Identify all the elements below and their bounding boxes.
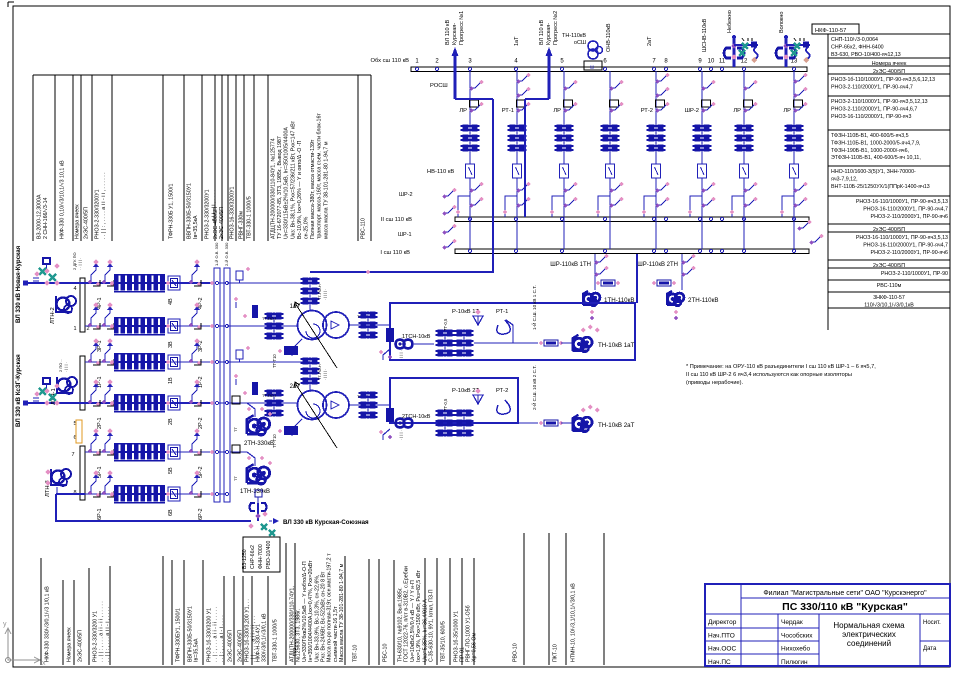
svg-text:РНОЗ-1б-330/3200 У1: РНОЗ-1б-330/3200 У1 xyxy=(207,608,213,662)
svg-text:5Р-2: 5Р-2 xyxy=(198,466,204,478)
svg-text:ШСНВ-110кВ: ШСНВ-110кВ xyxy=(702,18,708,52)
C-bracket coil xyxy=(724,48,731,58)
svg-text:АТДЦТН-200000/330/110-84У1, №1: АТДЦТН-200000/330/110-84У1, №125774 xyxy=(271,138,277,239)
lower-voltage equipment spec table (bottom-left) xyxy=(40,558,42,665)
svg-text:сн-25,0%: сн-25,0% xyxy=(304,216,310,239)
svg-text:ТН-10кВ 1аТ: ТН-10кВ 1аТ xyxy=(598,342,635,349)
1АТ LV line to loop1 xyxy=(349,324,390,326)
spec box ВЗ-1250 xyxy=(243,537,280,572)
svg-text:масса масла ТУ 38-101-281-80 1: масса масла ТУ 38-101-281-80 1-94,7 м xyxy=(323,141,329,239)
svg-text:. . | : , . . . а і - і . . .: . . | : , . . . а і - і . . . . xyxy=(219,615,225,662)
Союзная connection gear xyxy=(257,503,259,521)
svg-text:. | | | . . . : , . .: . | | | . . . : , . . xyxy=(398,337,403,360)
svg-text:Масса по-ро полная-319т, осн.м: Масса по-ро полная-319т, осн.масти-197,2… xyxy=(327,553,333,662)
svg-text:ТВТ-35/10, 600/5: ТВТ-35/10, 600/5 xyxy=(441,621,447,662)
svg-text:ТВТ-330-1 1000/5: ТВТ-330-1 1000/5 xyxy=(247,196,253,239)
svg-text:2Р-1: 2Р-1 xyxy=(97,417,103,429)
svg-text:2-Й О.В. 330: 2-Й О.В. 330 xyxy=(224,242,229,266)
svg-text:1-Й С.Ш. 10 кВ 1 С.Т.: 1-Й С.Ш. 10 кВ 1 С.Т. xyxy=(530,285,537,330)
svg-text:y: y xyxy=(3,621,7,628)
aux transformer feeder at x=734 xyxy=(733,37,736,67)
svg-text:С-35-630-10, 9У1, Iоткл, ПЗ-П: С-35-630-10, 9У1, Iоткл, ПЗ-П xyxy=(429,589,435,662)
CT stack bay 517 xyxy=(510,124,516,131)
svg-text:3Р-1: 3Р-1 xyxy=(97,340,103,352)
line VT ЛТН-2 xyxy=(57,298,70,311)
svg-text:6Р-2: 6Р-2 xyxy=(198,508,204,520)
breaker bay 610 xyxy=(606,164,615,178)
svg-text:Номера ячеек: Номера ячеек xyxy=(75,204,81,239)
svg-text:4В: 4В xyxy=(168,298,174,305)
330kV row 6 at y=494 xyxy=(85,493,214,495)
svg-text:РНОЗ-2-110/2000У1, ПР-90-яч4,6: РНОЗ-2-110/2000У1, ПР-90-яч4,6,7 xyxy=(831,106,917,112)
svg-text:ТФРН-330Б У1, 1500/1: ТФРН-330Б У1, 1500/1 xyxy=(169,183,175,239)
arrester cluster above row 403 xyxy=(43,378,50,384)
svg-text:ВЗ-630, РВО-10/400-яч12,13: ВЗ-630, РВО-10/400-яч12,13 xyxy=(831,52,901,58)
tiny marks xyxy=(742,38,752,41)
svg-text:II сш 110 кВ: II сш 110 кВ xyxy=(381,217,412,223)
yellow marker rect xyxy=(76,420,82,443)
1АТ regulation arrow xyxy=(295,303,337,368)
svg-text:11: 11 xyxy=(719,59,726,65)
autotransformer 1АТ xyxy=(298,311,327,340)
svg-text:яч3-7,9,12,: яч3-7,9,12, xyxy=(831,176,858,182)
ТН-330кВ blob 2ТН xyxy=(230,403,255,417)
svg-text:№125630, 3Т3, 1986г.: №125630, 3Т3, 1986г. xyxy=(296,609,302,662)
bay 13 extra hooks right xyxy=(798,223,808,228)
TN of bypass bus - ТН-110кВ оСШ xyxy=(588,41,598,51)
svg-text:5Р-1: 5Р-1 xyxy=(97,466,103,478)
330kV row 4 at y=283 xyxy=(25,282,214,284)
ТН-10кВ 2аТ blob xyxy=(573,418,585,430)
breaker 5В xyxy=(168,445,180,459)
disconnector 2Р-1 xyxy=(91,390,96,403)
svg-text:Uн=330/Тбкв2%/10,5кВ — Y нобто: Uн=330/Тбкв2%/10,5кВ — Y нобто/Δ-О-П xyxy=(302,561,308,662)
bay at x=744 ЛР xyxy=(743,71,745,164)
autotransformer 2АТ xyxy=(298,391,327,420)
ВЛ 110 кВ Курская-Прогресс №1 feeder arrow xyxy=(454,50,457,99)
svg-text:3НКФ-110-57: 3НКФ-110-57 xyxy=(873,295,905,301)
svg-text:5В: 5В xyxy=(168,467,174,474)
svg-text:ТТ: ТТ xyxy=(233,427,238,432)
svg-text:РВС-110м: РВС-110м xyxy=(877,283,902,289)
lower disconnectors bay 702 xyxy=(702,185,712,190)
disconnector 6Р-2 xyxy=(192,481,197,494)
C-bracket coil xyxy=(776,48,783,58)
svg-text:ГОСТ 12022-76, п/ст в-310В2, с: ГОСТ 12022-76, п/ст в-310В2, с.Еребки xyxy=(404,566,410,662)
CT cluster in loop2 xyxy=(438,409,444,416)
svg-text:ТВТ-10: ТВТ-10 xyxy=(353,645,359,662)
CT on 1АТ HV entry xyxy=(303,277,309,284)
svg-text:РНОЗ-16-330/3200У1: РНОЗ-16-330/3200У1 xyxy=(230,186,236,239)
breaker bay 656 xyxy=(652,164,661,178)
header box НКФ-110-57 xyxy=(812,24,859,34)
svg-text:Uкз: Вн-38,1%, Рхх=57/236/211: Uкз: Вн-38,1%, Рхх=57/236/211 кВт, Рхх=1… xyxy=(290,120,296,239)
svg-text:Небежно: Небежно xyxy=(727,10,733,33)
svg-text:РВНГ-330м: РВНГ-330м xyxy=(239,211,245,239)
svg-text:Iв=35,5кА: Iв=35,5кА xyxy=(193,215,199,239)
svg-text:ОНВ-110кВ: ОНВ-110кВ xyxy=(606,23,612,52)
svg-text:2хЭС-400/5П: 2хЭС-400/5П xyxy=(238,630,244,662)
bay at x=470 ЛР xyxy=(469,71,471,164)
ВЛ2 jumper to bus II xyxy=(525,98,549,100)
svg-text:ТТ-ПО-Н: ТТ-ПО-Н xyxy=(318,364,322,380)
svg-text:Обх сш 110 кВ: Обх сш 110 кВ xyxy=(370,58,409,64)
svg-text:РНОЗ-2-110/1000У1, ПР-90: РНОЗ-2-110/1000У1, ПР-90 xyxy=(881,271,948,277)
svg-text:РТ-2: РТ-2 xyxy=(641,108,653,114)
svg-text:РНОЗ-2-110/2000У1, ПР-90-яч6: РНОЗ-2-110/2000У1, ПР-90-яч6 xyxy=(871,214,948,220)
svg-text:ЭТФЗН-110Б-В1, 400-600/5-яч 10: ЭТФЗН-110Б-В1, 400-600/5-яч 10,11, xyxy=(831,155,921,161)
svg-text:. . | | : , . . . а і і - і ,: . . | | : , . . . а і і - і , . . . . xyxy=(105,607,111,662)
svg-text:ЛР: ЛР xyxy=(783,108,791,114)
CT cluster in loop1 xyxy=(438,329,444,336)
busbar II сш 110 кВ xyxy=(455,217,809,222)
svg-text:4Р-1: 4Р-1 xyxy=(97,297,103,309)
svg-text:ЛТН-2: ЛТН-2 xyxy=(50,307,56,324)
lower disconnectors bay 744 xyxy=(744,185,754,190)
CT stack bay 470 xyxy=(463,124,469,131)
svg-text:РНОЗ-16-110/2000У1, ПР-90-яч4,: РНОЗ-16-110/2000У1, ПР-90-яч4,7 xyxy=(863,242,948,248)
svg-text:2-Й С.Ш. 10 кВ 2 С.Т.: 2-Й С.Ш. 10 кВ 2 С.Т. xyxy=(530,365,537,410)
svg-text:РНОЗ-2-330/3200 У1: РНОЗ-2-330/3200 У1 xyxy=(93,611,99,662)
svg-text:. | | | .: . | | | . xyxy=(63,362,68,372)
svg-text:ШР-1: ШР-1 xyxy=(398,232,412,238)
svg-text:ВЛ 330 кВ КсЗГ-Курская: ВЛ 330 кВ КсЗГ-Курская xyxy=(15,354,22,427)
svg-text:Uкз=5,35%, Iн=36,4/910 А: Uкз=5,35%, Iн=36,4/910 А xyxy=(422,599,428,662)
330kV row 3 at y=326 xyxy=(85,325,214,327)
svg-text:НВ-110 кВ: НВ-110 кВ xyxy=(427,169,454,175)
fuse 2аТ xyxy=(544,420,558,426)
disconnector 3Р-1 xyxy=(91,313,96,326)
svg-text:ТФРН-330БУ1, 1500/1: ТФРН-330БУ1, 1500/1 xyxy=(176,608,182,662)
svg-text:ПКТ-10: ПКТ-10 xyxy=(553,644,559,662)
CT train row 5 xyxy=(114,445,119,451)
svg-text:Р-10кВ 2Т: Р-10кВ 2Т xyxy=(452,388,479,394)
2АТ LV line to loop2 xyxy=(349,404,390,406)
svg-text:соединений: соединений xyxy=(847,639,891,648)
box at bay 6 top xyxy=(584,61,602,70)
svg-text:ш: ш xyxy=(590,65,594,71)
svg-text:Iн=350/1004/4400А,Iхх=0,47%, Р: Iн=350/1004/4400А,Iхх=0,47%, Рхх=20кВт xyxy=(308,560,314,662)
breaker bay 702 xyxy=(698,164,707,178)
ВЛ 330 кВ Курская-Союзная line xyxy=(56,494,251,521)
svg-text:3Р-2: 3Р-2 xyxy=(198,340,204,352)
CT train row 6 xyxy=(114,487,119,493)
right 330kV bus pair - narrow rect buses xyxy=(214,268,220,502)
lower disconnectors bay 610 xyxy=(610,185,620,190)
bay at x=610 xyxy=(609,71,611,164)
svg-text:Вс-10,9%, Iхх=0,26% — Y и овто: Вс-10,9%, Iхх=0,26% — Y и овто/Δ -О -П xyxy=(297,140,303,239)
svg-text:РВО-10: РВО-10 xyxy=(513,643,519,662)
aux transformer feeder at x=786 xyxy=(785,37,788,67)
ТН line 1аТ xyxy=(513,342,538,344)
disconnector 5Р-1 xyxy=(91,439,96,452)
svg-text:Uн=330/115кВ±2%/10,5кВ, Iн=350: Uн=330/115кВ±2%/10,5кВ, Iн=350/1005/4400… xyxy=(284,127,290,239)
bay at x=564 ЛР xyxy=(563,71,565,164)
fuse gear above АТ MV rows xyxy=(235,302,237,308)
svg-text:. . | | : , . . . а і і - і і: . . | | : , . . . а і і - і і , . . . . … xyxy=(99,601,105,662)
busbar I сш 110 кВ xyxy=(455,249,809,254)
svg-text:. . | | | .: . . | | | . xyxy=(77,258,82,270)
svg-text:ШР-2: ШР-2 xyxy=(399,192,413,198)
svg-text:Нач.ПС: Нач.ПС xyxy=(708,659,731,666)
breaker bay 517 xyxy=(513,164,522,178)
svg-text:РНОЗ-1б-110/1000У1, ПР-90-яч3,: РНОЗ-1б-110/1000У1, ПР-90-яч3,5,6,12,13 xyxy=(831,77,935,83)
svg-text:Номера ячеек: Номера ячеек xyxy=(67,627,73,662)
corner tick top-left xyxy=(8,1,14,3)
svg-text:ЛР: ЛР xyxy=(459,108,467,114)
svg-text:НКФ-Н-330-4У1: НКФ-Н-330-4У1 xyxy=(256,624,262,662)
svg-text:Нач.ООС: Нач.ООС xyxy=(708,646,736,653)
breaker bay 744 xyxy=(740,164,749,178)
svg-text:РОСШ: РОСШ xyxy=(430,83,448,89)
svg-text:ТН-630/10, №9102, Вып.1985г.: ТН-630/10, №9102, Вып.1985г. xyxy=(398,587,404,662)
svg-text:ТТ-ПО-І: ТТ-ПО-І xyxy=(262,317,276,321)
svg-text:2В: 2В xyxy=(168,418,174,425)
10kV loop rectangle of 1АТ xyxy=(390,303,635,360)
svg-text:13: 13 xyxy=(791,59,798,65)
svg-text:2 СНН-166/√3-14: 2 СНН-166/√3-14 xyxy=(42,197,49,239)
lower disconnectors bay 564 xyxy=(564,185,574,190)
svg-text:Нихохебо: Нихохебо xyxy=(781,645,810,653)
svg-text:РНОЗ-16-110/1000У1, ПР-90-яч3,: РНОЗ-16-110/1000У1, ПР-90-яч3,5,13 xyxy=(856,235,948,241)
thick path ВЛ1 bypass: 455 down-493 to AT1 xyxy=(455,98,493,100)
svg-text:I сш 110 кВ: I сш 110 кВ xyxy=(380,250,410,256)
svg-text:РНОЗ-16-110/2000У1, ПР-90-яч3: РНОЗ-16-110/2000У1, ПР-90-яч3 xyxy=(831,114,911,120)
lower disconnectors bay 656 xyxy=(656,185,666,190)
lower disconnectors bay 517 xyxy=(517,185,527,190)
line VT ЛТН-3 xyxy=(52,471,65,484)
svg-text:10: 10 xyxy=(708,59,715,65)
row1 extension to 1АТ 330 side xyxy=(227,282,310,284)
svg-text:ТН-110кВ: ТН-110кВ xyxy=(562,33,586,39)
svg-text:РНОЗ-16-110/2000У1, ПР-90-яч4,: РНОЗ-16-110/2000У1, ПР-90-яч4,7 xyxy=(863,206,948,212)
svg-text:ФНН-7000: ФНН-7000 xyxy=(258,544,264,569)
svg-text:Носит.: Носит. xyxy=(923,620,941,626)
330kV row 1 at y=362 xyxy=(85,361,214,363)
svg-text:2: 2 xyxy=(86,326,89,332)
svg-text:РНОЗ-1б-330/3,200 У1, . .: РНОЗ-1б-330/3,200 У1, . . xyxy=(245,599,251,662)
1АТ neutral gear xyxy=(292,339,302,356)
disconnector 4Р-2 xyxy=(192,270,197,283)
hooks below 1ТСН xyxy=(383,349,390,360)
CT on 2АТ HV entry xyxy=(303,357,309,364)
fuse 2ТН xyxy=(657,280,671,286)
bypass busbar Обх сш 110 кВ xyxy=(411,67,807,72)
CT train row 4 xyxy=(114,276,119,282)
svg-text:электрических: электрических xyxy=(842,630,896,639)
arrester cluster above row 283 xyxy=(43,258,50,264)
loop1 inner line from АТ xyxy=(506,320,513,343)
svg-text:1-Й О.В. 330: 1-Й О.В. 330 xyxy=(214,242,219,266)
ВЛ 110 кВ Курская-Прогресс №2 feeder arrow xyxy=(548,50,551,99)
svg-text:СНР-66х2: СНР-66х2 xyxy=(250,545,256,569)
svg-text:Iхх=1,9%, Рхх=1500 кВт, Ркз=82: Iхх=1,9%, Рхх=1500 кВт, Ркз=82,5 кВт xyxy=(416,570,422,662)
CT stack bay 564 xyxy=(557,124,563,131)
svg-text:ВВПН-330Б-50/3150У1: ВВПН-330Б-50/3150У1 xyxy=(187,183,193,239)
breaker 6В xyxy=(168,487,180,501)
svg-text:РТ-1: РТ-1 xyxy=(496,309,508,315)
svg-text:РТ-2: РТ-2 xyxy=(496,388,508,394)
svg-text:1аТ: 1аТ xyxy=(514,36,520,46)
svg-text:НКФ-330 0,10/√3/10,1/√3 10,1: НКФ-330 0,10/√3/10,1/√3 10,1 кВ xyxy=(59,160,66,239)
CT stack bay 656 xyxy=(649,124,655,131)
svg-text:ВЛ 110 кВ: ВЛ 110 кВ xyxy=(539,20,545,45)
10kV loop rectangle of 2АТ xyxy=(390,378,518,423)
svg-text:ТТ-0,5: ТТ-0,5 xyxy=(443,398,448,411)
svg-text:330/√3/0,1/√3/0,1 кВ: 330/√3/0,1/√3/0,1 кВ xyxy=(261,613,268,662)
svg-text:Нормальная схема: Нормальная схема xyxy=(833,621,905,630)
svg-text:АТДЦТН-200000/330/110-74У1,: АТДЦТН-200000/330/110-74У1, xyxy=(290,586,296,662)
svg-text:. . | | : , . . . . а і і - і: . . | | : , . . . . а і і - і і , . . . … xyxy=(101,172,107,239)
svg-text:. | | | | .: . | | | | . xyxy=(323,369,327,380)
disconnector 6Р-1 xyxy=(91,481,96,494)
fuse 1ТН xyxy=(601,280,615,286)
CT train row 3 xyxy=(114,319,119,325)
svg-text:2хЭС-400/5П: 2хЭС-400/5П xyxy=(228,630,234,662)
svg-text:Uкз: Вн-33,9%, Вс-10,3%, сн-22: Uкз: Вн-33,9%, Вс-10,3%, сн-22,6%, xyxy=(314,575,320,663)
CT train row 2 xyxy=(114,396,119,402)
svg-text:Нач.ПТО: Нач.ПТО xyxy=(708,632,735,639)
bay at x=517 РТ-1 xyxy=(516,71,518,164)
svg-text:РНОЗ-2-330/3200У1: РНОЗ-2-330/3200У1 xyxy=(205,189,211,239)
CT stack bay 610 xyxy=(603,124,609,131)
svg-text:(приводы нерабочие).: (приводы нерабочие). xyxy=(686,380,743,386)
330kV row 2 at y=403 xyxy=(25,402,214,404)
svg-text:Чособских: Чособских xyxy=(781,631,813,639)
svg-text:2аТ: 2аТ xyxy=(647,36,653,46)
title block xyxy=(705,584,950,666)
svg-text:РНОЗ-2-330/3200У1: РНОЗ-2-330/3200У1 xyxy=(95,189,101,239)
CT train row 1 xyxy=(114,355,119,361)
CT stack bay 744 xyxy=(737,124,743,131)
row3 extension to 2АТ 330 side xyxy=(227,361,310,363)
svg-text:съемной части-16 1,5т: съемной части-16 1,5т xyxy=(332,606,339,662)
svg-text:2хЭС-400/5П: 2хЭС-400/5П xyxy=(84,207,90,239)
svg-text:Дата: Дата xyxy=(923,646,937,652)
breaker 3В xyxy=(168,319,180,333)
vertical 637 from bus I to loop1 corner xyxy=(636,254,638,303)
svg-text:ТВТ-330-1 1000/5: ТВТ-330-1 1000/5 xyxy=(273,619,279,662)
svg-text:1: 1 xyxy=(73,326,76,332)
330kV row 5 at y=452 xyxy=(85,451,214,453)
svg-text:Волокно: Волокно xyxy=(779,12,785,33)
row4 extension into 2АТ MV side xyxy=(227,402,298,404)
svg-text:Масса масла ТУ 38-101-281-80 1: Масса масла ТУ 38-101-281-80 1-94,7 м xyxy=(339,563,345,662)
svg-text:ЛР: ЛР xyxy=(733,108,741,114)
svg-text:ВЛ 110 кВ: ВЛ 110 кВ xyxy=(445,20,451,45)
svg-text:РВНГ-ПО-1000 У1-О5б: РВНГ-ПО-1000 У1-О5б xyxy=(466,605,472,662)
lower disconnectors bay 794 xyxy=(794,185,804,190)
svg-text:НТМН-10, 10/√3,1/10,1/√3/0,1 к: НТМН-10, 10/√3,1/10,1/√3/0,1 кВ xyxy=(570,583,577,662)
svg-text:ШР-2: ШР-2 xyxy=(685,108,699,114)
branch to arrester xyxy=(734,44,758,46)
svg-text:6В: 6В xyxy=(168,509,174,516)
row2 extension into 1АТ MV side xyxy=(227,325,298,327)
disconnector 1Р-2 xyxy=(192,349,197,362)
svg-text:2хЭС-400/5П: 2хЭС-400/5П xyxy=(219,207,225,239)
svg-text:СНР-66х2, ФНН-6400: СНР-66х2, ФНН-6400 xyxy=(831,44,884,50)
svg-text:* Примечание: на ОРУ-110 кВ ра: * Примечание: на ОРУ-110 кВ разъединител… xyxy=(686,364,876,370)
svg-text:транспорт. масса-160т, масса с: транспорт. масса-160т, масса съем. части… xyxy=(317,113,323,239)
svg-text:2аТ: 2аТ xyxy=(290,384,301,390)
svg-text:НКФ-330 330/√3/0,1/√3 1/0,1 кВ: НКФ-330 330/√3/0,1/√3 1/0,1 кВ xyxy=(44,586,51,662)
svg-text:Рхз: Вн-24/6Вт, Вс-522кВт, сн-: Рхз: Вн-24/6Вт, Вс-522кВт, сн-20 8 Вт xyxy=(321,571,327,662)
breaker bay 470 xyxy=(466,164,475,178)
svg-text:Пилюгин: Пилюгин xyxy=(781,659,808,666)
breaker bay 794 xyxy=(790,164,799,178)
ТН blob 1ТН-110кВ xyxy=(584,294,594,304)
disconnector 1Р-1 xyxy=(91,349,96,362)
svg-text:ТТ: ТТ xyxy=(233,476,238,481)
svg-text:Директор: Директор xyxy=(708,619,737,626)
svg-text:. . | : , . . . а і і - і і .: . . | : , . . . а і і - і і . . . . . xyxy=(213,607,219,662)
bay at x=702 ШР-2 xyxy=(701,71,703,164)
branch to arrester xyxy=(786,44,810,46)
lower disconnectors bay 470 xyxy=(470,185,480,190)
svg-text:ТТ-Т10: ТТ-Т10 xyxy=(272,354,277,368)
svg-text:. | | | . . . : , . .: . | | | . . . : , . . xyxy=(398,417,403,440)
svg-text:оСШ: оСШ xyxy=(574,40,586,46)
disconnector 5Р-2 xyxy=(192,439,197,452)
svg-text:ТФЗН-110Б-В1, 1000-2000/5-яч4,: ТФЗН-110Б-В1, 1000-2000/5-яч4,7,9, xyxy=(831,140,920,146)
svg-text:РВС-110: РВС-110 xyxy=(361,218,367,239)
svg-text:Прогресс №2: Прогресс №2 xyxy=(553,11,559,45)
330kV section buses (narrow vertical rects) xyxy=(80,278,85,332)
svg-text:ВЛ 330 кВ Курская-Союзная: ВЛ 330 кВ Курская-Союзная xyxy=(283,519,369,526)
small disconnector gear right of bus pair rows 1,3 xyxy=(236,271,243,280)
ТН-10кВ 1аТ blob xyxy=(573,338,585,350)
svg-text:ТТ-0,5: ТТ-0,5 xyxy=(443,318,448,331)
svg-text:ЛР: ЛР xyxy=(553,108,561,114)
svg-text:4Р-2: 4Р-2 xyxy=(198,297,204,309)
svg-text:ШР-110кВ 2ТН: ШР-110кВ 2ТН xyxy=(637,262,678,268)
svg-text:РНОЗ-16-110/1000У1, ПР-90-яч3,: РНОЗ-16-110/1000У1, ПР-90-яч3,5,13 xyxy=(856,199,948,205)
svg-text:РВО-10/400: РВО-10/400 xyxy=(266,541,272,569)
svg-text:4: 4 xyxy=(73,286,76,292)
svg-text:ТФЗН-110Б-В1, 400-600/5-яч3,5: ТФЗН-110Б-В1, 400-600/5-яч3,5 xyxy=(831,133,909,139)
disconnector 4Р-1 xyxy=(91,270,96,283)
ТН blob 2ТН-110кВ xyxy=(668,294,678,304)
svg-text:Р-10кВ 1Т: Р-10кВ 1Т xyxy=(452,309,479,315)
svg-text:1В: 1В xyxy=(168,377,174,384)
svg-text:6Р-1: 6Р-1 xyxy=(97,508,103,520)
svg-text:РНОЗ-2-110/2000У1, ПР-90-яч4,7: РНОЗ-2-110/2000У1, ПР-90-яч4,7 xyxy=(831,84,913,90)
svg-text:2Р-2: 2Р-2 xyxy=(198,417,204,429)
svg-text:РНОЗ-1б-35/1000 У1: РНОЗ-1б-35/1000 У1 xyxy=(454,611,460,662)
svg-text:СНП-110/√3-0,0064: СНП-110/√3-0,0064 xyxy=(831,36,878,43)
hooks below 2ТСН xyxy=(383,429,390,440)
breaker 2В xyxy=(168,396,180,410)
tiny marks xyxy=(794,38,804,41)
svg-text:Хр=0,56 Ом: Хр=0,56 Ом xyxy=(472,633,478,662)
svg-text:ШР-110кВ 1ТН: ШР-110кВ 1ТН xyxy=(550,262,591,268)
svg-text:ВЛ 330 кВ Новая-Курская: ВЛ 330 кВ Новая-Курская xyxy=(15,245,22,323)
svg-text:. | | | | .: . | | | | . xyxy=(323,289,327,300)
ТН-330кВ blob 1ТН xyxy=(230,452,255,466)
svg-text:ТТ-ПО-Н: ТТ-ПО-Н xyxy=(318,284,322,300)
svg-text:РТ-1: РТ-1 xyxy=(502,108,514,114)
svg-text:II сш 110 кВ ШР-2 6 яч3,4 исп: II сш 110 кВ ШР-2 6 яч3,4 используются к… xyxy=(686,372,852,378)
bay ШР-110кВ 1ТН below bus I xyxy=(594,254,596,290)
svg-text:Прогресс №1: Прогресс №1 xyxy=(459,11,465,45)
svg-text:РНОЗ-2-110/2000У1, ПР-90-яч6: РНОЗ-2-110/2000У1, ПР-90-яч6 xyxy=(871,250,948,256)
svg-text:8: 8 xyxy=(73,490,76,496)
svg-text:7: 7 xyxy=(71,452,74,458)
svg-text:12: 12 xyxy=(741,59,748,65)
svg-text:Чердак: Чердак xyxy=(781,619,803,626)
svg-text:Полная масса-380т, масса отмас: Полная масса-380т, масса отмасти-139т xyxy=(310,139,316,239)
svg-text:ТФЗН-190Б-В1, 1000-2000/-яч6,: ТФЗН-190Б-В1, 1000-2000/-яч6, xyxy=(831,148,909,154)
